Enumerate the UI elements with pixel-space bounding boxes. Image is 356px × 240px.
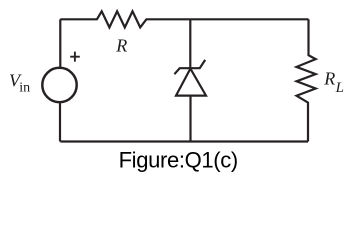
svg-text:L: L (335, 80, 344, 96)
svg-text:Figure:Q1(c): Figure:Q1(c) (119, 148, 238, 173)
svg-text:R: R (115, 36, 127, 56)
svg-text:R: R (323, 69, 335, 89)
svg-text:in: in (19, 81, 30, 96)
